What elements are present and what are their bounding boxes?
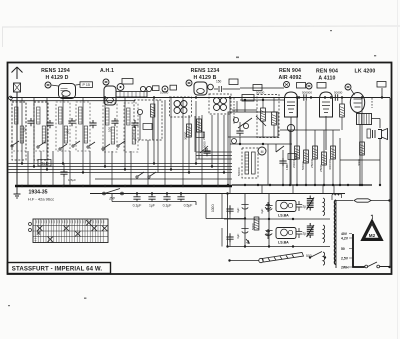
wire	[233, 98, 235, 125]
power section	[206, 194, 269, 247]
junction	[292, 218, 294, 220]
wire	[389, 98, 391, 201]
junction	[104, 96, 106, 98]
padder trimmer	[243, 123, 248, 128]
junction	[388, 199, 390, 201]
wire	[359, 114, 369, 125]
coil pack	[34, 102, 48, 151]
resistor box	[288, 154, 296, 160]
junction	[298, 96, 300, 98]
junction	[324, 256, 326, 258]
junction	[151, 192, 153, 194]
svg-text:1,5μF: 1,5μF	[68, 178, 76, 182]
warning triangle	[362, 215, 382, 240]
svg-text:M2: M2	[369, 233, 376, 238]
pickup arm	[259, 253, 304, 263]
wire	[290, 117, 292, 185]
junction	[82, 171, 84, 173]
resistor	[313, 146, 318, 159]
capacitor	[279, 158, 286, 166]
switch ZW contact	[121, 192, 124, 195]
svg-text:30000: 30000	[184, 131, 188, 140]
junction	[217, 185, 219, 187]
svg-text:GLD: GLD	[40, 161, 49, 166]
wave-band switch	[117, 141, 125, 147]
REN904 #1	[284, 82, 290, 88]
wire	[61, 89, 68, 91]
junction	[201, 185, 203, 187]
vertical comb wires left	[22, 98, 230, 194]
junction	[296, 96, 298, 98]
wave-band switch	[11, 141, 19, 147]
trimmer box	[229, 79, 238, 85]
svg-text:200: 200	[66, 129, 70, 134]
svg-text:5000: 5000	[203, 141, 207, 148]
svg-text:100Ω: 100Ω	[211, 204, 215, 212]
caps under lower line	[112, 194, 196, 206]
resistor	[360, 142, 365, 155]
assorted junction dots on buses	[21, 185, 23, 187]
wave-band switch	[102, 144, 110, 150]
element	[297, 83, 306, 89]
right resistor comb	[297, 98, 362, 186]
left coil boxes	[12, 102, 26, 151]
junction	[136, 192, 138, 194]
lower line	[90, 193, 345, 195]
wire	[349, 234, 352, 268]
tube labels	[41, 68, 375, 82]
junction	[262, 143, 264, 145]
svg-text:2WH: 2WH	[341, 266, 349, 270]
IF transformer	[170, 97, 192, 117]
table terminal	[29, 229, 32, 232]
LK4200	[333, 94, 341, 100]
junction	[124, 168, 126, 170]
svg-text:M: M	[261, 150, 264, 154]
tube V1 anode	[62, 91, 70, 97]
junction	[361, 184, 363, 186]
junction	[62, 162, 64, 164]
svg-text:40000Ω: 40000Ω	[328, 158, 332, 170]
junction	[388, 266, 390, 268]
junction	[180, 192, 182, 194]
coil pack	[124, 103, 138, 152]
svg-text:2500Ω: 2500Ω	[310, 158, 314, 168]
junction	[292, 245, 294, 247]
ZW switch on lower line	[103, 192, 106, 195]
wire	[51, 85, 59, 86]
top small parts: tube1 group	[45, 82, 51, 88]
svg-text:4μF: 4μF	[236, 207, 240, 213]
terminal	[208, 84, 214, 90]
fuse	[336, 200, 353, 202]
potentiometer	[287, 124, 294, 131]
trimmer C	[117, 84, 124, 91]
resistor box	[242, 95, 254, 102]
svg-text:50000: 50000	[301, 161, 305, 170]
svg-text:50000: 50000	[237, 167, 241, 176]
lower buses left	[9, 164, 233, 173]
wire	[371, 201, 390, 268]
tube V3 anode	[197, 89, 205, 94]
wire	[262, 185, 334, 194]
svg-text:150: 150	[216, 80, 222, 84]
junction	[62, 96, 64, 98]
junction	[153, 185, 155, 187]
junction	[341, 96, 343, 98]
padder trimmer	[233, 117, 238, 122]
output transformer	[357, 114, 372, 125]
top bus	[10, 97, 390, 99]
gram switch lever	[230, 252, 322, 261]
junction	[166, 192, 168, 194]
wire	[200, 146, 208, 153]
junction	[262, 99, 264, 101]
svg-text:AIR 4092: AIR 4092	[278, 75, 301, 81]
wire	[224, 219, 330, 247]
main frame	[8, 63, 392, 275]
svg-text:H.F - 42a 96cc: H.F - 42a 96cc	[28, 197, 54, 202]
tube V3 RENS 1234	[194, 82, 207, 95]
svg-text:20000: 20000	[292, 159, 296, 168]
svg-text:RENS 1234: RENS 1234	[191, 68, 220, 74]
detector dashed box + resistors	[257, 95, 279, 139]
junction	[244, 184, 246, 186]
wire	[222, 194, 230, 247]
capacitor	[203, 148, 210, 156]
wire	[228, 137, 276, 185]
capacitor	[60, 169, 67, 177]
junction	[226, 245, 228, 247]
box	[196, 132, 204, 138]
tube V5 REN 904	[320, 92, 333, 117]
svg-text:A 4110: A 4110	[318, 76, 335, 82]
svg-text:STASSFURT - IMPERIAL 64 W.: STASSFURT - IMPERIAL 64 W.	[12, 265, 103, 272]
junction	[33, 165, 35, 167]
capacitor bank	[241, 205, 272, 244]
svg-text:H 4129 B: H 4129 B	[193, 75, 216, 81]
capacitor bank	[296, 196, 314, 239]
junction	[324, 96, 326, 98]
wire	[351, 90, 362, 108]
resistor	[331, 146, 336, 159]
wave-band switch	[72, 141, 80, 147]
svg-text:P 15: P 15	[83, 83, 90, 87]
trimmer	[232, 139, 237, 144]
tube V2	[104, 86, 116, 105]
svg-text:50000: 50000	[256, 90, 265, 94]
junction	[379, 184, 381, 186]
AVC switch lever	[276, 146, 284, 152]
REN904 #2	[301, 94, 309, 100]
junction	[332, 184, 334, 186]
value labels	[160, 90, 343, 94]
wire	[283, 130, 290, 185]
junction	[226, 192, 228, 194]
junction	[239, 143, 241, 145]
wire bus	[95, 178, 232, 180]
junction	[46, 168, 48, 170]
speaker group	[367, 129, 388, 140]
switch ZW lever	[106, 189, 120, 194]
coil pack	[76, 102, 90, 151]
element	[377, 82, 386, 88]
svg-text:LK 4200: LK 4200	[355, 69, 376, 75]
svg-text:100: 100	[108, 127, 112, 132]
junction	[223, 171, 225, 173]
IF transformer	[209, 94, 231, 114]
A.H.1 parts	[103, 79, 109, 85]
junction	[305, 184, 307, 186]
junction	[46, 185, 48, 187]
wire	[195, 116, 206, 159]
tube grid cap	[345, 84, 351, 90]
capacitor	[236, 128, 243, 136]
svg-text:250Ω: 250Ω	[319, 164, 323, 172]
junction	[339, 184, 341, 186]
resistor	[254, 217, 259, 230]
svg-text:5000: 5000	[251, 223, 255, 230]
thick ground bus	[15, 185, 232, 187]
junction	[257, 184, 259, 186]
resistor	[304, 150, 309, 163]
junction	[381, 96, 383, 98]
junction	[104, 185, 106, 187]
junction	[195, 96, 197, 98]
svg-text:40V: 40V	[341, 232, 348, 236]
title box	[8, 263, 111, 274]
svg-text:4μF: 4μF	[236, 233, 240, 239]
svg-text:RENS 1294: RENS 1294	[41, 68, 70, 74]
mains switch contact	[365, 265, 368, 268]
wave-band switch	[59, 144, 67, 150]
transformer tap labels	[341, 232, 349, 270]
junction	[268, 218, 270, 220]
element	[317, 83, 326, 89]
wire ground bus right	[232, 184, 372, 186]
svg-text:1μF: 1μF	[149, 204, 155, 208]
junction	[268, 245, 270, 247]
junction	[347, 184, 349, 186]
junction	[309, 256, 311, 258]
svg-text:0,1μF: 0,1μF	[133, 204, 142, 208]
junction	[314, 184, 316, 186]
tube grid cap	[306, 83, 312, 89]
junction	[244, 245, 246, 247]
trimmer C dot	[120, 86, 122, 88]
junction	[310, 96, 312, 98]
svg-text:1MΩ: 1MΩ	[285, 163, 289, 170]
LSBA chokes	[265, 201, 296, 240]
svg-text:100: 100	[23, 127, 27, 132]
trimmer C	[146, 86, 151, 91]
wire	[238, 116, 266, 128]
svg-text:H 4129 D: H 4129 D	[45, 75, 68, 81]
svg-text:REN 904: REN 904	[316, 69, 338, 75]
wire	[371, 98, 373, 108]
wire	[240, 99, 285, 101]
junction	[361, 96, 363, 98]
wave-band switch	[148, 172, 156, 178]
magic eye	[258, 147, 266, 155]
trimmer box P15	[80, 82, 93, 88]
junction	[33, 185, 35, 187]
svg-text:LS.BA: LS.BA	[278, 241, 289, 245]
trimmer C	[162, 86, 168, 92]
tube3 group	[186, 80, 192, 86]
tube V4 REN 904	[285, 92, 298, 117]
capacitor	[131, 120, 138, 128]
resistor	[187, 124, 192, 137]
wave-band switch	[136, 172, 144, 178]
junction	[227, 184, 229, 186]
svg-text:4μF: 4μF	[260, 208, 264, 214]
svg-text:1934-35: 1934-35	[28, 190, 47, 196]
svg-text:20000: 20000	[202, 131, 206, 140]
wire	[76, 84, 81, 87]
capacitor	[68, 118, 75, 126]
capacitor	[89, 120, 96, 128]
junction	[359, 184, 361, 186]
svg-text:2μ: 2μ	[303, 205, 307, 209]
resistor	[197, 119, 202, 132]
junction	[330, 96, 332, 98]
value labels	[236, 207, 264, 239]
junction	[269, 184, 271, 186]
tube V2 anode	[106, 97, 113, 102]
terminal table	[33, 219, 108, 243]
capacitor	[226, 206, 233, 214]
svg-text:2μ: 2μ	[303, 232, 307, 236]
coil pack	[103, 103, 117, 152]
trimmer box	[122, 79, 133, 85]
wire	[325, 116, 327, 150]
junction	[323, 184, 325, 186]
wire	[63, 164, 65, 187]
junction	[182, 185, 184, 187]
junction	[211, 165, 213, 167]
mid small parts	[140, 86, 145, 91]
capacitor	[111, 118, 118, 126]
wire	[323, 198, 325, 265]
svg-text:REN 904: REN 904	[279, 68, 301, 74]
junction	[244, 217, 246, 219]
svg-text:0,5μF: 0,5μF	[184, 204, 193, 208]
junction	[289, 184, 291, 186]
trimmer box	[153, 86, 160, 91]
resistor	[322, 152, 327, 165]
antenna	[12, 67, 23, 186]
trimmer strip	[116, 92, 147, 98]
components on comb	[27, 118, 34, 126]
mains switch lever	[368, 262, 390, 267]
wire	[214, 86, 284, 92]
resistor	[340, 104, 345, 117]
junction	[104, 165, 106, 167]
box	[34, 102, 48, 160]
trimmer box	[170, 85, 177, 90]
wire	[360, 88, 382, 185]
table terminal	[29, 223, 32, 226]
junction	[62, 185, 64, 187]
ground arrow under thick bus	[14, 187, 21, 198]
junction	[153, 162, 155, 164]
junction	[282, 184, 284, 186]
wire	[239, 122, 241, 144]
coil unit	[134, 100, 162, 140]
band switch block	[228, 112, 278, 137]
coil pack	[56, 102, 70, 151]
junction	[82, 185, 84, 187]
mains transformer	[332, 194, 342, 268]
capacitor	[46, 120, 53, 128]
resistor box	[253, 85, 262, 91]
tube V6 LK 4200	[350, 93, 364, 113]
junction	[170, 168, 172, 170]
mains switch contact	[377, 265, 380, 268]
svg-text:LS.BA: LS.BA	[278, 214, 289, 218]
wire filament bus	[10, 100, 135, 102]
junction	[21, 162, 23, 164]
trimmer C dot	[164, 88, 166, 90]
box	[12, 102, 26, 160]
junction	[188, 171, 190, 173]
wire	[341, 98, 343, 131]
wire	[280, 129, 340, 131]
svg-text:50: 50	[341, 247, 345, 251]
value labels	[202, 131, 361, 176]
junction	[244, 99, 246, 101]
wire	[120, 92, 144, 98]
junction	[296, 184, 298, 186]
junction	[229, 96, 231, 98]
wave-band switch	[37, 142, 45, 148]
GLD label	[38, 160, 51, 167]
wave-band switch	[87, 142, 95, 148]
mains fuse	[354, 199, 371, 202]
scan specks	[8, 30, 376, 306]
svg-text:0,1μF: 0,1μF	[163, 204, 172, 208]
svg-text:A.H.1: A.H.1	[100, 68, 114, 74]
svg-text:50000: 50000	[334, 90, 343, 94]
svg-text:500000: 500000	[302, 90, 312, 94]
oscillator coil	[242, 148, 258, 178]
junction	[195, 162, 197, 164]
tube V1 RENS 1294	[59, 84, 76, 99]
junction	[228, 259, 230, 261]
mains switch	[353, 234, 365, 267]
table markings	[35, 220, 104, 240]
resistor	[295, 146, 300, 159]
junction	[124, 185, 126, 187]
wire	[230, 101, 292, 144]
svg-text:4,2V: 4,2V	[341, 237, 349, 241]
svg-text:2,5V: 2,5V	[341, 257, 349, 261]
short bus stack mid	[196, 152, 232, 159]
junction	[153, 96, 155, 98]
junction	[170, 185, 172, 187]
value labels	[23, 127, 207, 148]
capacitor	[226, 234, 233, 242]
E terminal	[9, 96, 13, 100]
wire	[340, 159, 380, 161]
